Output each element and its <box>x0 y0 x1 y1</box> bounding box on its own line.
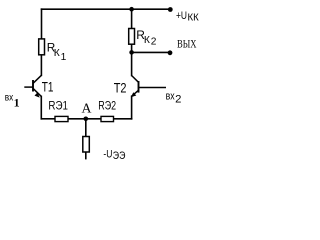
svg-text:RЭ1: RЭ1 <box>48 98 68 112</box>
transistor T1 <box>24 75 53 97</box>
wire node A down to tail resistor <box>85 119 87 137</box>
resistor RЭ1 <box>48 98 68 121</box>
terminal вых <box>168 37 197 56</box>
svg-text:вх: вх <box>166 90 175 102</box>
svg-text:T2: T2 <box>114 81 127 97</box>
svg-text:ЭЭ: ЭЭ <box>113 150 126 162</box>
resistor RК1 <box>39 39 67 63</box>
svg-text:1: 1 <box>14 96 20 110</box>
wire T1 emitter row to RЭ1 <box>41 118 55 120</box>
svg-text:КК: КК <box>188 12 199 23</box>
svg-text:вх: вх <box>5 93 14 104</box>
svg-text:2: 2 <box>151 36 157 47</box>
svg-text:-U: -U <box>103 149 112 161</box>
wire T1 emitter vertical <box>40 96 42 118</box>
wire tail resistor to -Uээ terminal <box>85 152 87 159</box>
wire RК1 bottom to T1 collector <box>40 55 42 76</box>
wire T2 branch: rail to RК2 <box>131 9 133 28</box>
svg-text:+U: +U <box>176 10 187 22</box>
junction top rail / RК2 <box>129 7 134 12</box>
wire left vertical from rail to RК1 <box>41 9 43 39</box>
wire RЭ2 to T2 emitter corner <box>114 118 132 120</box>
terminal -Uээ label <box>103 149 125 162</box>
junction RК2 bottom / output <box>129 50 134 55</box>
svg-text:RЭ2: RЭ2 <box>98 98 116 112</box>
svg-text:2: 2 <box>175 93 181 105</box>
svg-text:А: А <box>82 100 92 115</box>
input вх1 <box>5 93 20 110</box>
resistor RК2 <box>129 28 157 48</box>
svg-text:1: 1 <box>61 52 67 63</box>
wire RК2 bottom through output node down to T2 collector <box>131 44 133 75</box>
svg-text:T1: T1 <box>42 80 54 96</box>
wire output to вых terminal <box>132 51 170 53</box>
node A <box>82 100 92 121</box>
transistor T2 <box>114 76 166 98</box>
input вх2 <box>166 90 182 105</box>
terminal +Uкк <box>168 7 199 23</box>
wire RЭ1 to node A <box>68 118 101 120</box>
wire top rail <box>42 8 171 10</box>
resistor tail (current source) <box>83 137 90 153</box>
svg-text:К: К <box>54 48 60 59</box>
resistor RЭ2 <box>98 98 116 121</box>
wire T2 emitter vertical <box>131 96 133 119</box>
svg-text:ВЫХ: ВЫХ <box>177 37 197 51</box>
svg-text:К: К <box>144 35 150 46</box>
